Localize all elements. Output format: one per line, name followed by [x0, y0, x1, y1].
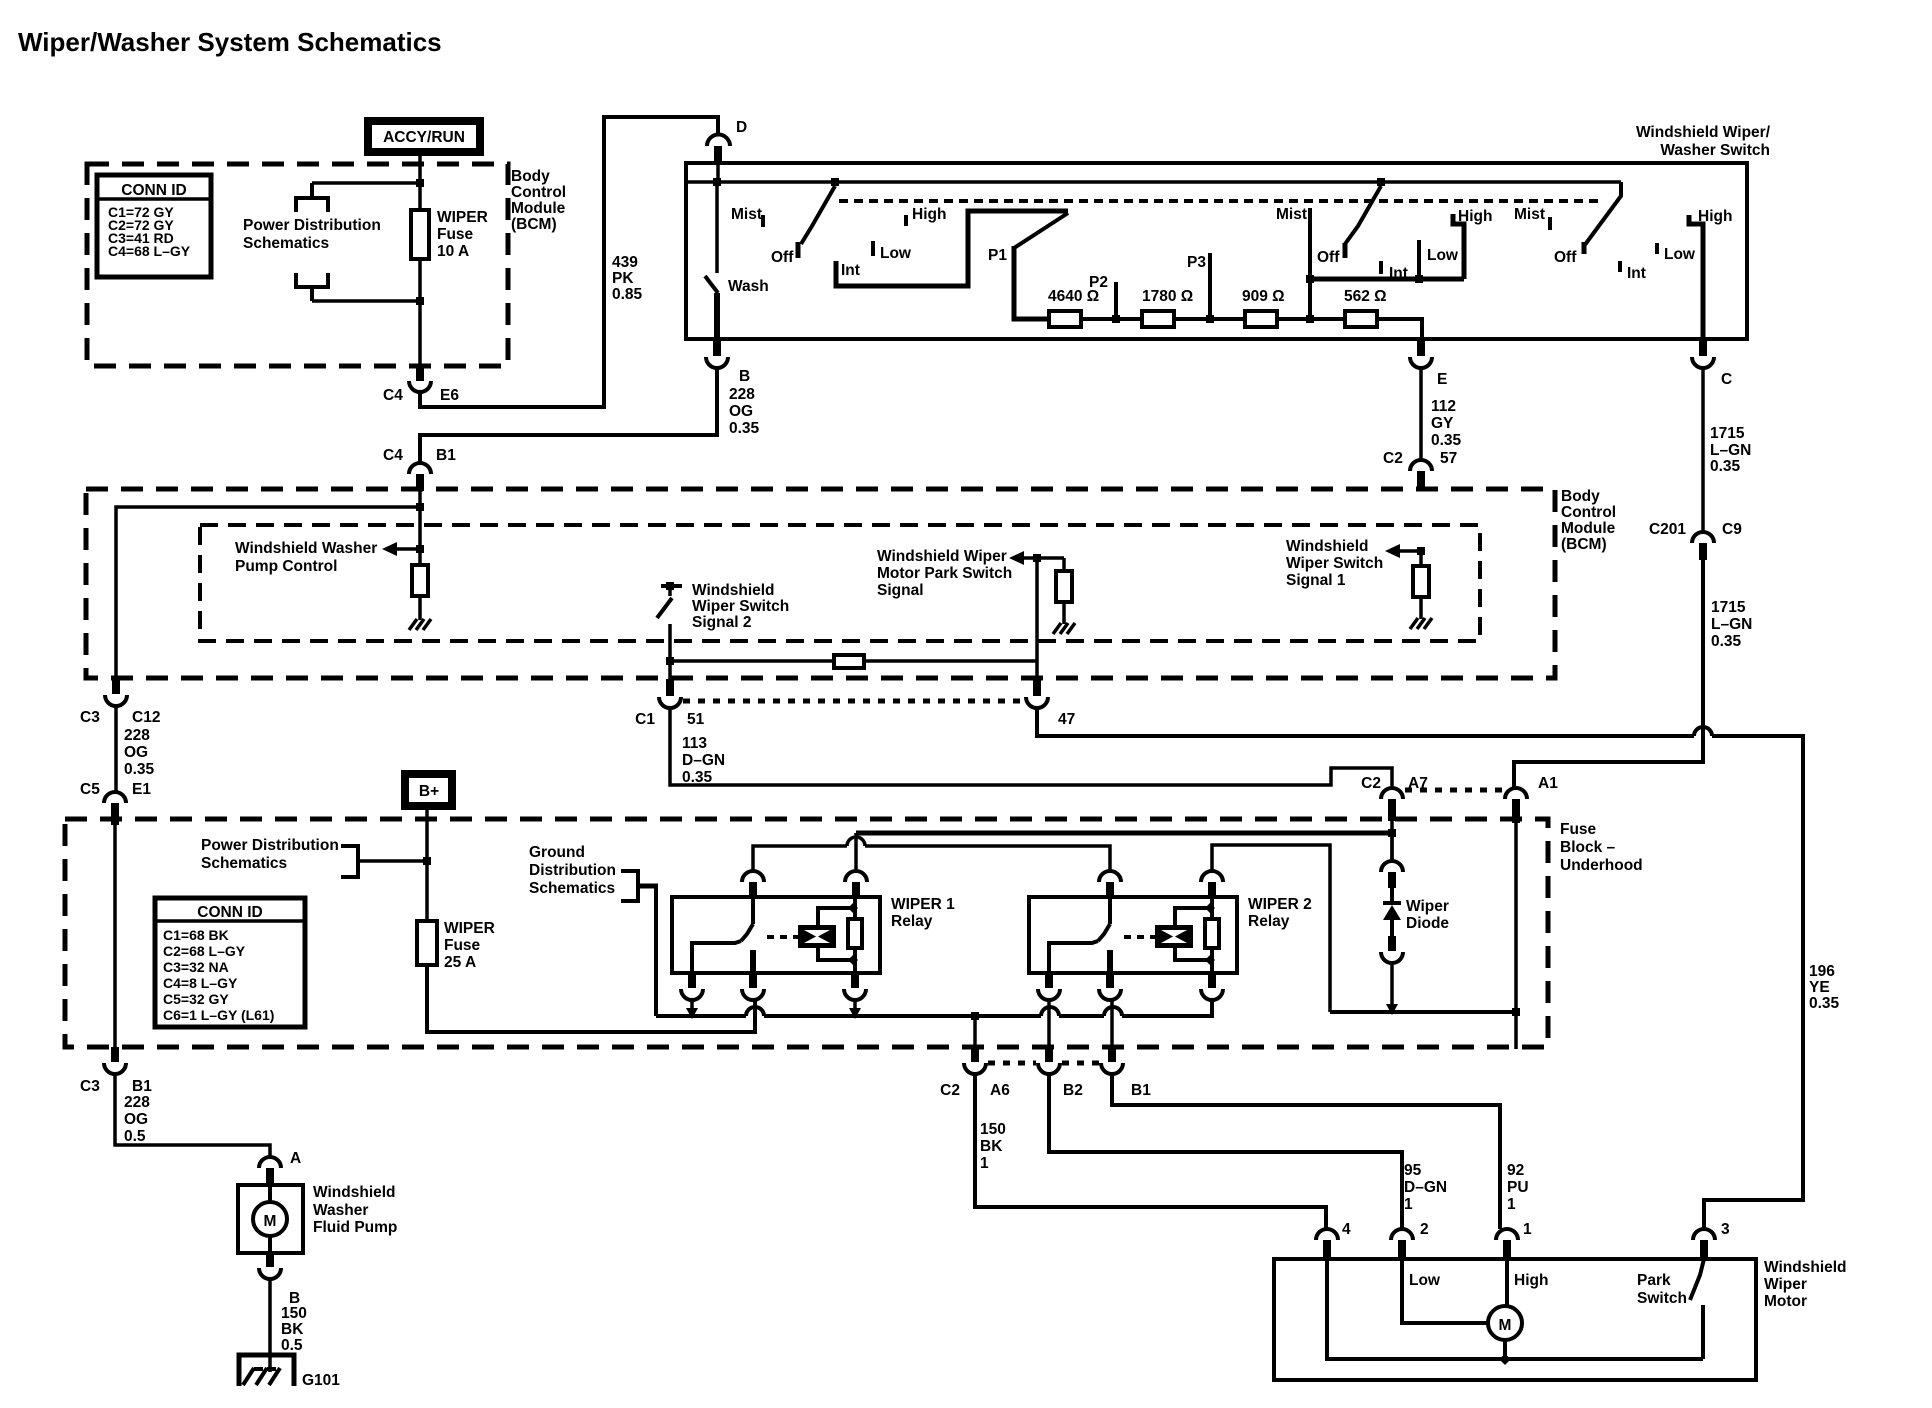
svg-text:25 A: 25 A: [444, 954, 476, 971]
node B1 branch: [416, 503, 424, 511]
svg-text:Fuse: Fuse: [444, 937, 481, 954]
svg-text:Mist: Mist: [731, 206, 762, 223]
wiper 2 relay box: [1029, 897, 1237, 973]
Off contact (left): [771, 242, 798, 266]
wire 113 D-GN C1 to A7: [670, 708, 1392, 787]
svg-text:0.5: 0.5: [281, 1337, 303, 1354]
svg-text:Fluid Pump: Fluid Pump: [313, 1219, 397, 1236]
svg-text:L–GN: L–GN: [1710, 442, 1751, 459]
wire ground riser to ground bus: [654, 886, 658, 1016]
wire R4 to E drop: [1377, 319, 1422, 339]
svg-text:C201: C201: [1649, 521, 1686, 538]
svg-text:C3: C3: [80, 1078, 100, 1095]
svg-text:C1=68 BK: C1=68 BK: [163, 927, 229, 943]
connector C2/A7: [1361, 775, 1428, 821]
svg-text:Int: Int: [841, 262, 860, 279]
svg-text:196: 196: [1809, 963, 1835, 980]
wiper 1 relay label: [891, 896, 955, 930]
Mist position mark (left): [731, 206, 763, 227]
svg-text:C12: C12: [132, 709, 160, 726]
wire A7 into fuse block: [1390, 821, 1394, 861]
svg-text:92: 92: [1507, 1162, 1524, 1179]
svg-text:OG: OG: [729, 403, 753, 420]
P1 contact: [988, 246, 1049, 319]
svg-text:112: 112: [1431, 398, 1456, 415]
Mist position mark (right): [1514, 206, 1550, 230]
svg-text:562 Ω: 562 Ω: [1344, 288, 1387, 305]
svg-text:C2: C2: [940, 1082, 960, 1099]
svg-text:Park: Park: [1637, 1272, 1671, 1289]
wire motor pin 2 low input: [1402, 1259, 1488, 1323]
svg-text:G101: G101: [302, 1372, 340, 1389]
connector C1/51: [635, 679, 704, 728]
wiper 2 relay resistor: [1205, 897, 1219, 973]
svg-text:1: 1: [980, 1155, 989, 1172]
mechanical linkage dashed line: [839, 199, 1602, 203]
svg-text:Low: Low: [1409, 1272, 1441, 1289]
wiper speed rail: [1310, 277, 1464, 282]
dotted connector pair line C1-47: [683, 699, 1024, 704]
BCM main dashed box: [86, 489, 1555, 678]
svg-text:3: 3: [1721, 1221, 1730, 1238]
wiper 2 relay pin 87a bottom: [1038, 973, 1060, 1046]
node signal 2 junction: [666, 657, 674, 665]
node A1 riser to coil bus: [1512, 1008, 1520, 1016]
svg-text:Wiper Switch: Wiper Switch: [692, 598, 789, 615]
wire fuse 25A to wiper1 relay NO contact: [427, 965, 755, 1032]
svg-text:C9: C9: [1722, 521, 1742, 538]
svg-text:Mist: Mist: [1514, 206, 1545, 223]
svg-text:CONN ID: CONN ID: [121, 182, 186, 199]
svg-text:C4=8 L–GY: C4=8 L–GY: [163, 975, 238, 991]
wire R1 to R2: [1081, 317, 1142, 321]
ground (washer pump control): [409, 619, 431, 630]
Int contact and delay ladder wire: [836, 211, 1068, 286]
wire 228 OG 0.35 left column: [116, 706, 155, 792]
P2 contact: [1089, 274, 1120, 323]
wire C5/E1 to C3/B1: [113, 825, 117, 1047]
svg-text:ACCY/RUN: ACCY/RUN: [383, 129, 465, 146]
svg-text:Wash: Wash: [728, 278, 769, 295]
wiper 1 relay pin 86 top: [845, 871, 867, 897]
ground G101: [239, 1355, 340, 1389]
svg-text:Windshield: Windshield: [313, 1184, 396, 1201]
node washer blade pivot: [831, 178, 839, 186]
wire ACCY/RUN to BCM: [418, 154, 422, 166]
svg-text:1715: 1715: [1710, 425, 1745, 442]
Low position mark (delay ladder): [873, 241, 912, 262]
svg-text:909 Ω: 909 Ω: [1242, 288, 1285, 305]
wire B+ bus to relays: [856, 831, 1392, 836]
svg-text:C4=68 L–GY: C4=68 L–GY: [108, 243, 191, 259]
resistor R3 909 ohm: [1242, 288, 1285, 327]
svg-text:A: A: [290, 1150, 301, 1167]
fuse block underhood label: [1560, 821, 1643, 874]
connector C3/C12: [80, 678, 160, 726]
svg-text:E1: E1: [132, 781, 151, 798]
svg-text:OG: OG: [124, 744, 148, 761]
svg-text:0.35: 0.35: [124, 761, 155, 778]
connector B: [706, 339, 750, 385]
svg-text:A6: A6: [990, 1082, 1010, 1099]
svg-text:2: 2: [1420, 1221, 1429, 1238]
node A7 to B+ bus: [1388, 829, 1396, 837]
wiper 1 relay coil: [798, 903, 858, 965]
wiper 1 relay linkage: [767, 935, 800, 939]
resistor wiper switch signal 1: [1413, 551, 1429, 619]
wire 47 to wiper motor (196 YE): [1037, 708, 1840, 1229]
Int position mark (wiper switch): [1381, 261, 1408, 282]
svg-text:Off: Off: [771, 249, 794, 266]
connector B2: [1038, 1046, 1083, 1099]
P3 contact: [1187, 253, 1214, 323]
wiper 2 relay linkage: [1124, 935, 1157, 939]
svg-text:C1: C1: [635, 711, 655, 728]
wire C to C201 (1715 L-GN): [1703, 368, 1751, 532]
svg-text:51: 51: [687, 711, 705, 728]
connector C5/E1: [80, 781, 151, 825]
connector 2 (wiper motor): [1391, 1221, 1429, 1259]
svg-text:(BCM): (BCM): [511, 216, 557, 233]
svg-text:Off: Off: [1554, 249, 1577, 266]
windshield wiper motor box: [1274, 1259, 1756, 1380]
ground distribution bracket: [621, 871, 658, 901]
svg-text:GY: GY: [1431, 415, 1454, 432]
connector C3/B1: [80, 1047, 152, 1095]
wire 92 PU B1 to motor pin 1: [1112, 1074, 1529, 1229]
connector B1 (fuse block): [1101, 1046, 1151, 1099]
wire park switch signal horizontal: [670, 659, 1037, 663]
svg-text:B1: B1: [436, 447, 456, 464]
svg-text:Relay: Relay: [891, 913, 933, 930]
svg-text:Windshield Wiper/: Windshield Wiper/: [1636, 124, 1771, 141]
svg-text:WIPER 1: WIPER 1: [891, 896, 955, 913]
relay coil supply bus: [1330, 1010, 1516, 1014]
connector D: [707, 119, 747, 182]
svg-text:WIPER 2: WIPER 2: [1248, 896, 1312, 913]
svg-text:C3: C3: [80, 709, 100, 726]
svg-text:439: 439: [612, 254, 638, 271]
svg-text:Washer Switch: Washer Switch: [1660, 142, 1770, 159]
wire relay2 coil feed riser: [1212, 845, 1330, 1012]
connector C2/57: [1383, 450, 1457, 490]
wiper 2 relay coil: [1155, 903, 1215, 965]
wire label 112 GY 0.35: [1421, 368, 1462, 460]
svg-text:Power Distribution: Power Distribution: [201, 837, 339, 854]
svg-text:Signal: Signal: [877, 582, 924, 599]
svg-text:Int: Int: [1627, 265, 1646, 282]
wiper 2 relay pin 30 top: [1099, 871, 1121, 897]
park switch (motor): [1637, 1259, 1704, 1359]
svg-text:Power Distribution: Power Distribution: [243, 217, 381, 234]
svg-text:228: 228: [124, 1094, 150, 1111]
ground (park switch signal): [1053, 623, 1075, 634]
wire relay1 common to relay2 common (hop at 856): [753, 837, 1110, 871]
resistor park switch signal pull: [1056, 558, 1072, 624]
svg-text:47: 47: [1058, 711, 1075, 728]
ACCY/RUN power feed box: [368, 121, 480, 152]
wire B+ to fuse: [425, 808, 429, 861]
wiper diode: [1381, 829, 1449, 1015]
svg-text:High: High: [1514, 1272, 1548, 1289]
svg-text:Control: Control: [511, 184, 566, 201]
svg-text:C6=1 L–GY (L61): C6=1 L–GY (L61): [163, 1007, 274, 1023]
svg-text:Fuse: Fuse: [1560, 821, 1597, 838]
svg-text:0.35: 0.35: [682, 769, 713, 786]
svg-text:Off: Off: [1317, 249, 1340, 266]
svg-text:228: 228: [729, 386, 755, 403]
node ground bus to C2/A6: [971, 1012, 979, 1020]
wire bracket to fuse node upper: [312, 181, 420, 185]
svg-text:Relay: Relay: [1248, 913, 1290, 930]
wire 95 D-GN B2 to motor pin 2: [1049, 1074, 1447, 1229]
power distribution schematics label (fuse block): [201, 837, 339, 872]
svg-text:4: 4: [1342, 1221, 1351, 1238]
svg-text:1: 1: [1507, 1196, 1516, 1213]
wiper 1 relay pin 87 bottom: [742, 973, 764, 1032]
svg-text:Wiper: Wiper: [1764, 1276, 1807, 1293]
svg-text:57: 57: [1440, 450, 1457, 467]
svg-text:M: M: [264, 1213, 277, 1230]
svg-text:1780 Ω: 1780 Ω: [1142, 288, 1193, 305]
node upper fuse junction: [416, 179, 424, 187]
svg-text:0.35: 0.35: [729, 420, 760, 437]
svg-text:Module: Module: [511, 200, 566, 217]
svg-text:Windshield Wiper: Windshield Wiper: [877, 548, 1007, 565]
svg-text:Washer: Washer: [313, 1202, 368, 1219]
svg-text:Signal 1: Signal 1: [1286, 572, 1346, 589]
connector C4/E6: [383, 366, 459, 404]
connector 1 (wiper motor): [1496, 1221, 1532, 1259]
wire C9 to fuse block A1 (1715 L-GN): [1514, 560, 1752, 787]
svg-text:Wiper Switch: Wiper Switch: [1286, 555, 1383, 572]
svg-text:0.35: 0.35: [1711, 633, 1742, 650]
svg-text:C2: C2: [1383, 450, 1403, 467]
wire 150 BK A6 to motor pin 4: [975, 1074, 1326, 1229]
svg-text:C4: C4: [383, 387, 403, 404]
power distribution bracket (fuse block): [341, 846, 431, 877]
svg-text:C3=32 NA: C3=32 NA: [163, 959, 229, 975]
wiper 1 relay box: [672, 897, 880, 973]
svg-text:Motor Park Switch: Motor Park Switch: [877, 565, 1012, 582]
svg-text:P3: P3: [1187, 254, 1206, 271]
wire B1 into BCM: [418, 491, 422, 549]
svg-text:Control: Control: [1561, 504, 1616, 521]
wire relay1 coil feed riser: [854, 833, 858, 871]
dotted connector pair line A7-A1: [1405, 788, 1504, 793]
resistor washer pump control: [412, 549, 428, 620]
dotted connector pair line B2-B1: [1062, 1061, 1099, 1066]
wiper motor park switch signal arrow: [877, 548, 1064, 599]
wire A1 column: [1514, 823, 1518, 1049]
B+ feed box: [405, 774, 452, 806]
svg-text:D: D: [736, 119, 747, 136]
windshield washer pump control arrow: [235, 540, 424, 575]
Low contact (wiper switch): [1415, 240, 1459, 283]
svg-text:(BCM): (BCM): [1561, 536, 1607, 553]
svg-text:High: High: [912, 206, 946, 223]
wiper 2 relay pin 87 bottom: [1099, 973, 1121, 1046]
High position mark (delay ladder): [906, 206, 946, 226]
svg-text:Body: Body: [1561, 488, 1600, 505]
wire B1 node to left column: [116, 507, 420, 678]
wiper 1 relay resistor: [848, 897, 862, 973]
svg-text:0.35: 0.35: [1809, 995, 1840, 1012]
svg-text:Pump Control: Pump Control: [235, 558, 337, 575]
svg-text:Signal 2: Signal 2: [692, 614, 751, 631]
wiper 2 relay label: [1248, 896, 1312, 930]
svg-text:Schematics: Schematics: [243, 235, 329, 252]
power distribution bracket lower: [296, 273, 328, 301]
wiper 2 relay switch: [1049, 897, 1110, 973]
svg-text:Windshield Washer: Windshield Washer: [235, 540, 377, 557]
fuse block underhood dashed box: [65, 819, 1548, 1047]
connector 47: [1026, 679, 1075, 728]
resistor R2 1780 ohm: [1142, 288, 1193, 327]
wiper switch signal 1 arrow: [1286, 538, 1425, 589]
svg-text:Schematics: Schematics: [201, 855, 287, 872]
svg-text:Distribution: Distribution: [529, 862, 616, 879]
svg-text:B: B: [739, 368, 750, 385]
svg-text:OG: OG: [124, 1111, 148, 1128]
svg-text:CONN ID: CONN ID: [197, 904, 262, 921]
BCM power-section dashed box: [87, 164, 508, 366]
node wiper blade pivot: [1377, 178, 1385, 186]
Low position mark (right): [1657, 243, 1696, 263]
Mist contact (wiper switch): [1276, 206, 1314, 323]
svg-text:0.5: 0.5: [124, 1128, 146, 1145]
CONN ID table (fuse block): [155, 898, 305, 1027]
wire R3 to Mist node: [1277, 317, 1345, 321]
dotted connector pair line A6-B2: [988, 1061, 1036, 1066]
svg-text:228: 228: [124, 727, 150, 744]
connector C: [1692, 339, 1732, 388]
windshield wiper/washer switch label: [1636, 124, 1771, 159]
resistor in park switch signal line: [834, 655, 864, 668]
svg-text:PU: PU: [1507, 1179, 1529, 1196]
wiper switch blade SW4: [1345, 186, 1381, 258]
svg-text:Schematics: Schematics: [529, 880, 615, 897]
connector A1: [1505, 775, 1558, 823]
svg-text:WIPER: WIPER: [437, 209, 488, 226]
wire bracket to fuse node lower: [312, 299, 420, 303]
svg-text:YE: YE: [1809, 979, 1830, 996]
node D junction: [713, 178, 721, 186]
wire motor pin 4 to ground rail: [1327, 1259, 1703, 1359]
WIPER fuse 25A: [417, 861, 495, 971]
svg-text:C: C: [1721, 371, 1732, 388]
resistor R1 4640 ohm: [1048, 288, 1099, 327]
svg-text:150: 150: [281, 1305, 307, 1322]
svg-text:D–GN: D–GN: [682, 752, 725, 769]
svg-text:Module: Module: [1561, 520, 1616, 537]
svg-text:Windshield: Windshield: [1286, 538, 1369, 555]
svg-text:P1: P1: [988, 247, 1007, 264]
svg-text:C5: C5: [80, 781, 100, 798]
connector A (washer pump): [259, 1150, 301, 1185]
wire motor pin 1 high input: [1505, 1259, 1509, 1306]
svg-text:Motor: Motor: [1764, 1293, 1807, 1310]
wiper switch signal 2 switch: [657, 582, 789, 679]
wire label 439 PK 0.85: [612, 254, 643, 303]
motor M1 (wiper): [1488, 1306, 1522, 1365]
svg-text:C2: C2: [1361, 775, 1381, 792]
svg-text:BK: BK: [980, 1138, 1003, 1155]
svg-text:Block –: Block –: [1560, 839, 1616, 856]
svg-text:113: 113: [682, 735, 707, 752]
svg-text:B1: B1: [1131, 1082, 1151, 1099]
svg-text:1: 1: [1523, 1221, 1532, 1238]
svg-text:C5=32 GY: C5=32 GY: [163, 991, 229, 1007]
wire 228 OG 0.5 to washer pump: [115, 1074, 270, 1157]
svg-text:Fuse: Fuse: [437, 226, 474, 243]
connector 3 (wiper motor): [1693, 1221, 1730, 1259]
svg-text:1: 1: [1404, 1196, 1413, 1213]
svg-text:150: 150: [980, 1121, 1006, 1138]
svg-text:B1: B1: [132, 1078, 152, 1095]
ground (wiper switch signal 1): [1410, 618, 1432, 629]
wire R2 to R3: [1174, 317, 1245, 321]
svg-text:95: 95: [1404, 1162, 1422, 1179]
svg-text:Mist: Mist: [1276, 206, 1307, 223]
svg-text:C4: C4: [383, 447, 403, 464]
wire switch feed rail: [686, 180, 1621, 184]
WIPER fuse 10A: [411, 166, 488, 366]
connector B (washer pump): [259, 1253, 300, 1307]
windshield wiper/washer switch box: [686, 163, 1747, 339]
connector E: [1410, 339, 1447, 388]
wire B to C4/B1 (228 OG): [420, 368, 760, 462]
High contact to C output: [1689, 208, 1732, 339]
svg-text:M: M: [1499, 1317, 1512, 1334]
rightmost blade SW5: [1584, 182, 1621, 254]
windshield wiper motor label: [1764, 1259, 1847, 1310]
svg-text:Wiper/Washer System Schematics: Wiper/Washer System Schematics: [18, 27, 442, 57]
wiper 1 relay pin 87a bottom: [681, 973, 703, 1019]
wash switch SW1: [705, 182, 769, 339]
svg-text:E: E: [1437, 371, 1447, 388]
connector 4 (wiper motor): [1316, 1221, 1351, 1259]
delay rheostat blade SW3: [1014, 213, 1068, 248]
BCM internal dashed box: [200, 525, 1480, 641]
svg-text:Diode: Diode: [1406, 915, 1449, 932]
wiper 1 relay switch: [692, 897, 753, 973]
connector C4/B1: [383, 447, 456, 491]
connector C2/A6: [940, 1016, 1010, 1099]
wire 150 BK 0.5 to G101: [270, 1279, 307, 1372]
svg-text:P2: P2: [1089, 274, 1108, 291]
svg-text:E6: E6: [440, 387, 459, 404]
wiper 1 relay pin 30 top: [742, 871, 764, 897]
svg-text:A1: A1: [1538, 775, 1558, 792]
svg-text:PK: PK: [612, 270, 634, 287]
Int position mark (right): [1620, 261, 1646, 282]
power distribution schematics label: [243, 217, 381, 252]
resistor R4 562 ohm: [1344, 288, 1387, 327]
svg-text:1715: 1715: [1711, 599, 1746, 616]
svg-text:0.35: 0.35: [1431, 432, 1462, 449]
svg-text:B2: B2: [1063, 1082, 1083, 1099]
wiper 2 relay pin 85 bottom: [1201, 973, 1223, 1000]
svg-text:Ground: Ground: [529, 844, 585, 861]
node lower fuse junction: [416, 297, 424, 305]
svg-text:Low: Low: [1664, 246, 1696, 263]
High contact (wiper switch): [1453, 208, 1492, 279]
windshield washer fluid pump: [238, 1184, 397, 1253]
svg-text:Switch: Switch: [1637, 1290, 1687, 1307]
wire 47 column: [1035, 558, 1039, 679]
BCM label (top): [511, 168, 566, 233]
